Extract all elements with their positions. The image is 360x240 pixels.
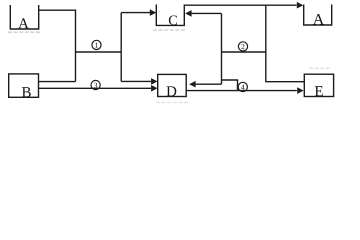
digit 3 xyxy=(94,83,97,88)
arrowhead into D left upper xyxy=(151,78,157,85)
wire line 4 D to E (under circle 4) xyxy=(186,90,297,92)
wire B up stub xyxy=(39,81,76,83)
digit 2 xyxy=(241,44,244,49)
label B xyxy=(22,87,31,97)
wire horizontal line 1 (under circle 1) xyxy=(76,51,122,53)
arrowhead into E left (line 4) xyxy=(297,87,303,94)
box D bottom-middle xyxy=(158,74,187,96)
wire arrow into D right xyxy=(196,83,222,85)
wire arrow into C right xyxy=(192,12,222,14)
label E xyxy=(315,86,323,96)
label A2 xyxy=(313,14,324,25)
wire right-outer vertical to E xyxy=(266,5,305,82)
box A1 top-left (open top) xyxy=(10,5,38,29)
digit 1 xyxy=(95,43,98,48)
bleed-through smudge above box E xyxy=(309,67,331,69)
wire line 2 (under circle 2) xyxy=(222,51,266,53)
label A1 xyxy=(18,18,29,28)
wire A1 right to vertical riser xyxy=(39,10,76,81)
wire arrow into C left xyxy=(121,12,150,14)
circle 3 xyxy=(91,80,100,89)
box B bottom-left xyxy=(9,74,39,97)
arrowhead into C left xyxy=(150,9,156,16)
arrowhead into A2 left xyxy=(297,2,303,9)
label D xyxy=(167,86,177,96)
circle 1 xyxy=(92,40,101,49)
label C xyxy=(169,15,177,25)
arrowhead into D right xyxy=(189,81,195,88)
wire middle-left spine xyxy=(120,13,122,82)
wire line 3 from B to D xyxy=(39,87,152,89)
box E bottom-right xyxy=(304,74,333,96)
bleed-through smudge under box D xyxy=(156,102,190,104)
bleed-through smudge under box C xyxy=(153,29,186,31)
wire arrow into D left upper xyxy=(121,80,151,82)
wire top line C to A2 xyxy=(184,4,296,6)
circle 2 xyxy=(238,42,247,51)
bleed-through smudge under box A1 xyxy=(8,31,41,33)
box C top-middle (open top) xyxy=(156,5,184,26)
wire zigzag spine to line 4 xyxy=(222,80,238,91)
arrowhead into C right xyxy=(185,10,191,17)
arrowhead into D left lower (line 3) xyxy=(151,85,157,92)
wire right spine xyxy=(221,13,223,84)
box A2 top-right (open top) xyxy=(304,5,332,26)
circle 4 xyxy=(238,82,247,91)
digit 4 xyxy=(241,85,244,90)
